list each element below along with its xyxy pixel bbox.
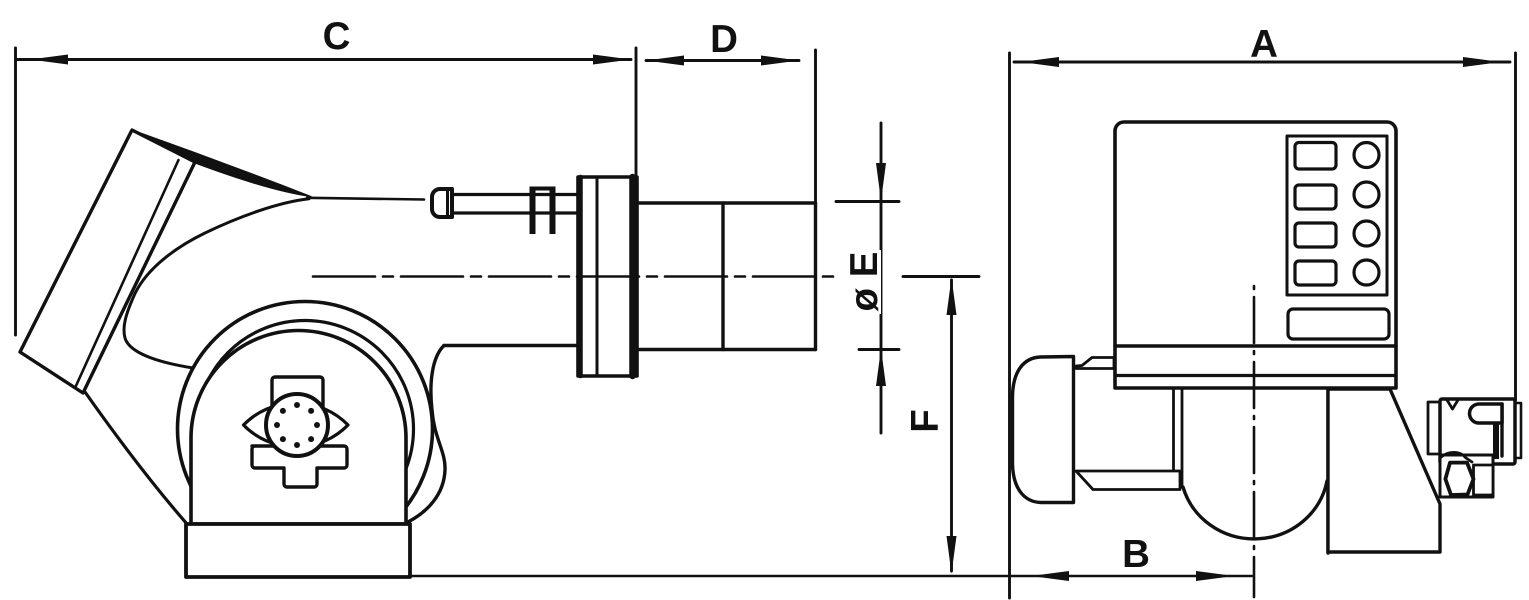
svg-text:A: A [1250, 23, 1278, 66]
svg-text:F: F [904, 409, 947, 433]
svg-text:B: B [1122, 533, 1150, 576]
svg-text:D: D [710, 18, 738, 61]
svg-text:ø E: ø E [843, 252, 886, 312]
svg-text:C: C [323, 15, 351, 58]
